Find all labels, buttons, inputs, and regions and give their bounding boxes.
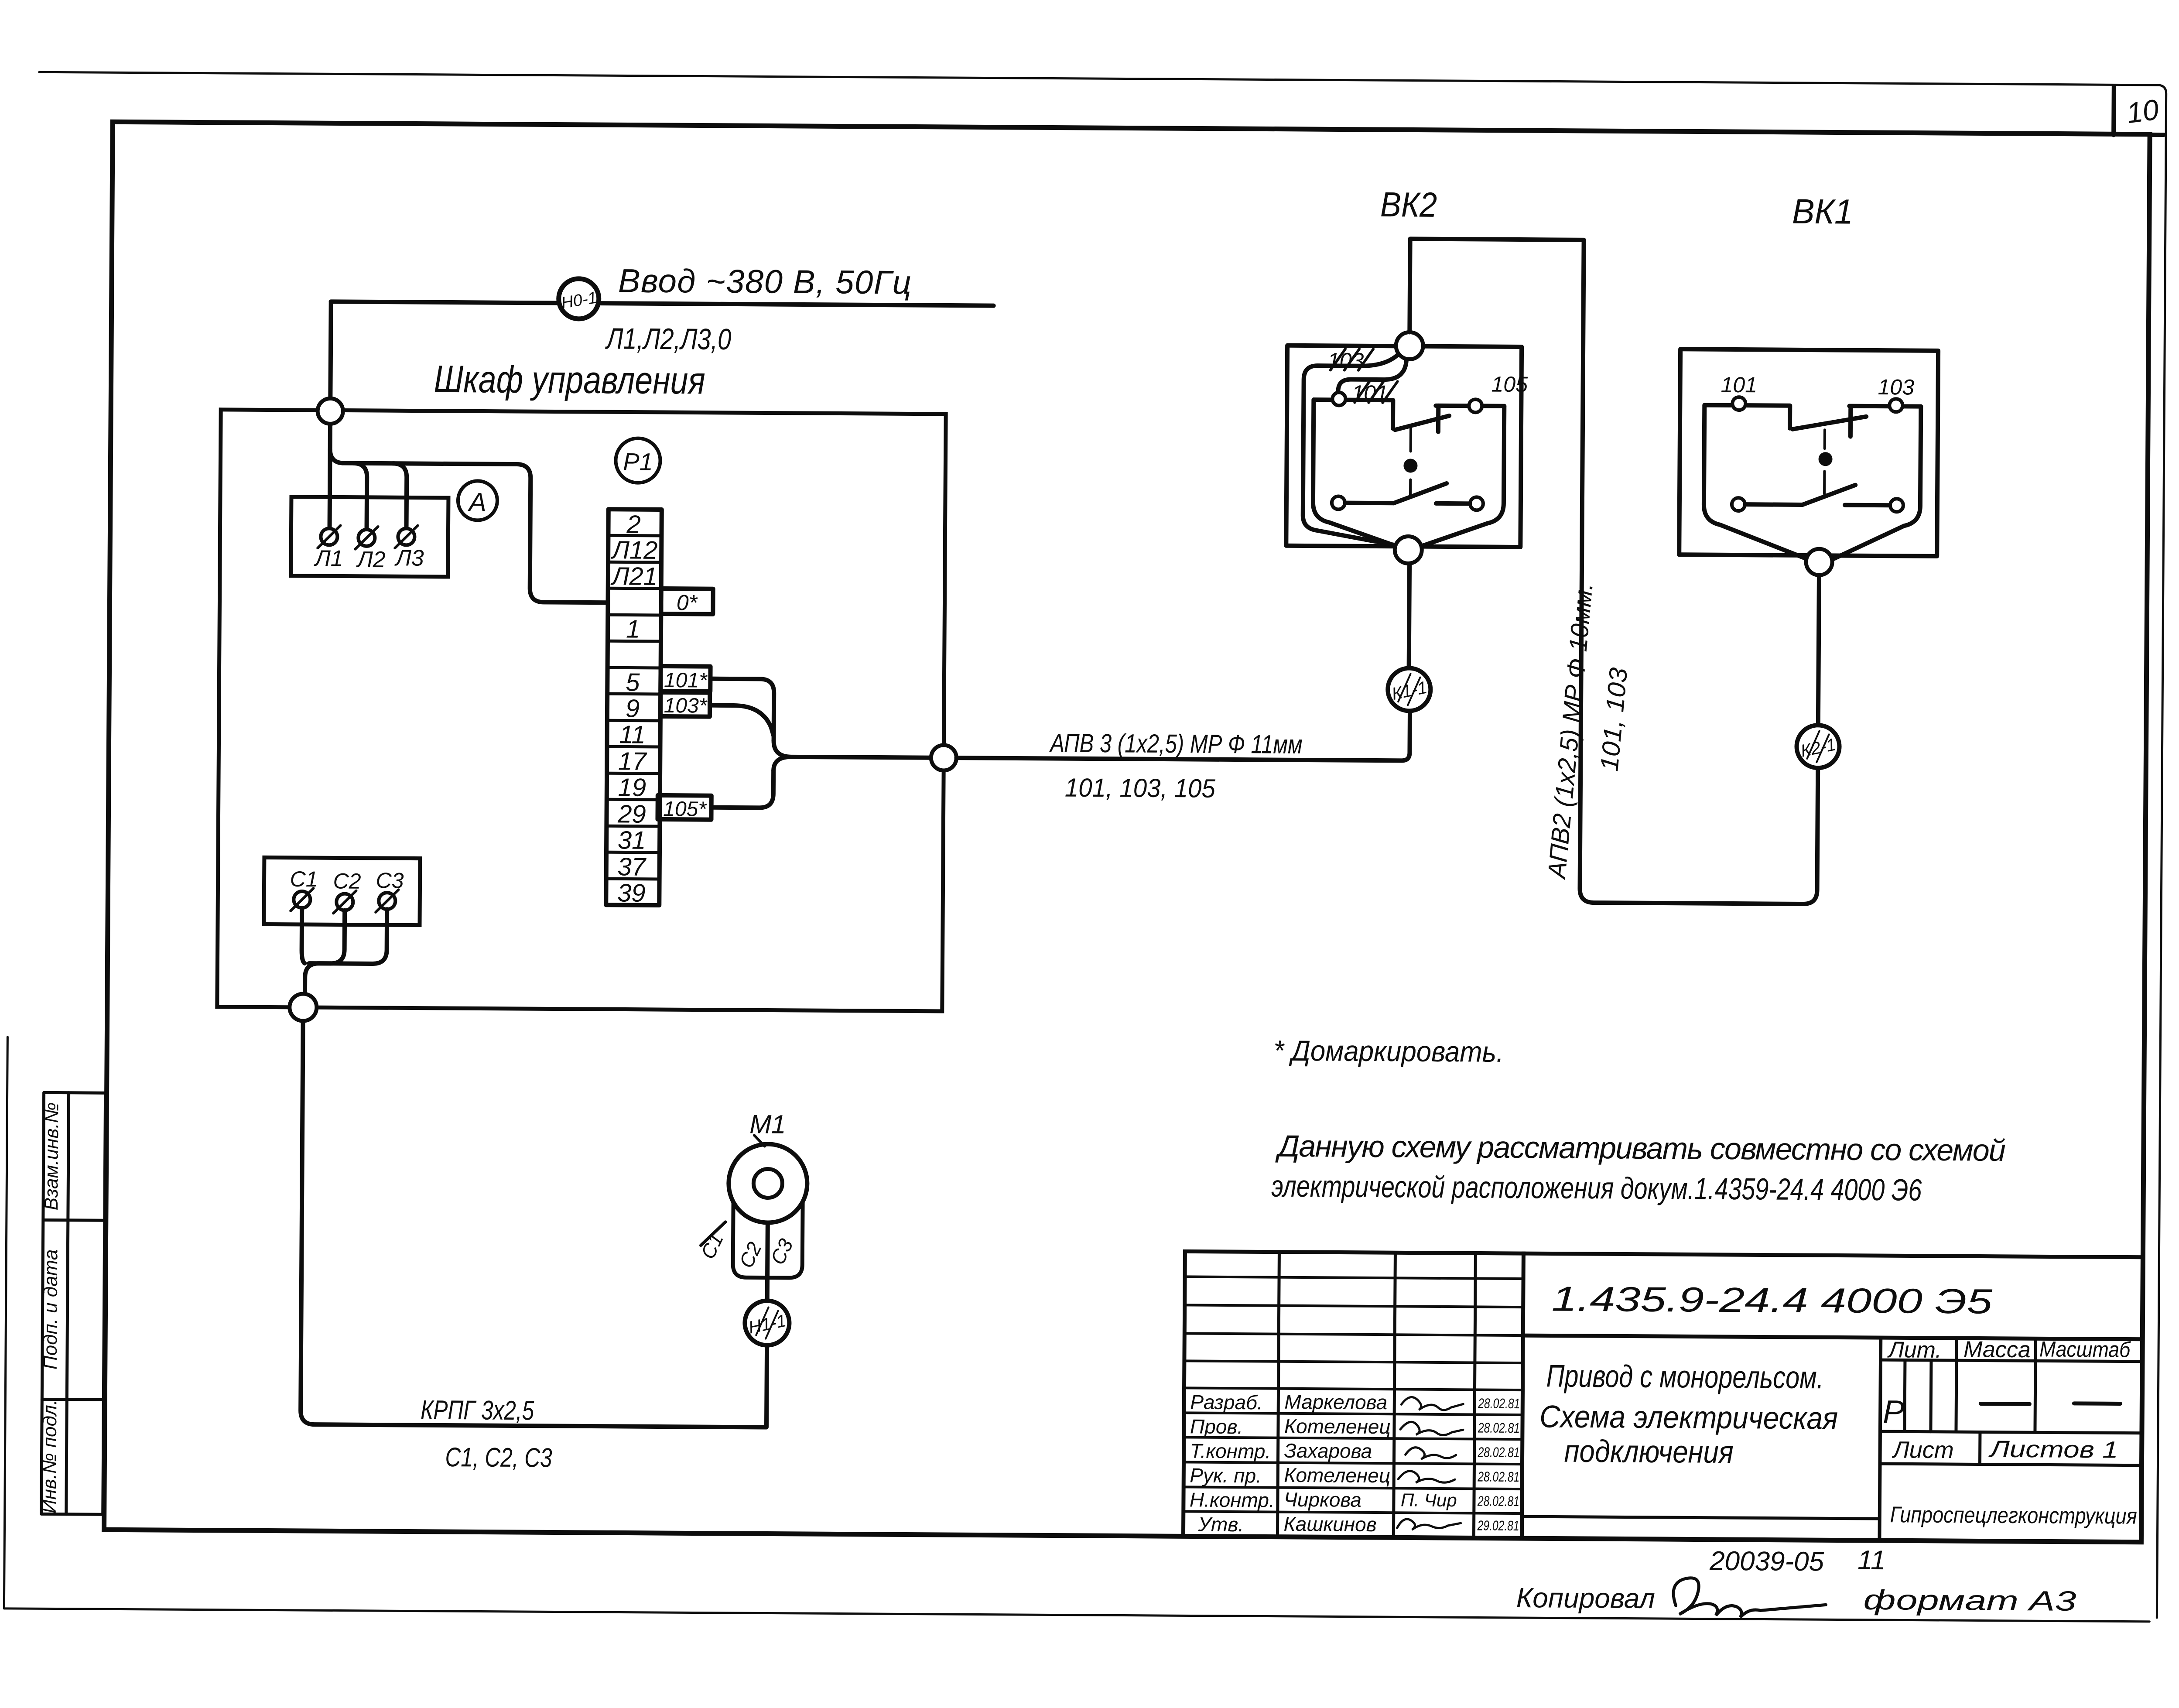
svg-text:Котеленец: Котеленец	[1284, 1464, 1390, 1487]
wire tag box 103*	[660, 692, 710, 718]
wire: cabinet bottom junction down and across to motor	[301, 1021, 769, 1427]
circled label Р1	[616, 438, 660, 483]
motor body	[733, 1202, 803, 1278]
ВК1 actuator link lower	[1823, 471, 1826, 494]
svg-text:Н.контр.: Н.контр.	[1190, 1488, 1275, 1511]
svg-text:Шкаф управления: Шкаф управления	[434, 357, 705, 402]
strip row lines	[606, 535, 662, 879]
svg-text:ВК2: ВК2	[1380, 185, 1437, 224]
ВК2 actuator link lower	[1409, 479, 1412, 497]
svg-text:2: 2	[626, 510, 641, 539]
signature 3	[1406, 1448, 1456, 1460]
svg-text:Л21: Л21	[610, 562, 658, 591]
svg-text:Захарова: Захарова	[1284, 1439, 1372, 1462]
svg-text:А: А	[468, 487, 486, 517]
svg-text:П. Чир: П. Чир	[1401, 1489, 1457, 1510]
left strip cell divider 2	[42, 1398, 103, 1401]
cable marker Н1-1	[745, 1301, 790, 1345]
motor M1 stator circle	[729, 1144, 807, 1223]
left strip cell divider 1	[43, 1219, 105, 1222]
ВК1 lower contact blade	[1803, 485, 1855, 505]
title block upper row lines (left part)	[1184, 1277, 1523, 1363]
svg-text:формат А3: формат А3	[1863, 1584, 2076, 1617]
svg-text:11: 11	[1857, 1545, 1886, 1575]
лист row top line	[1880, 1431, 2142, 1433]
svg-text:20039-05: 20039-05	[1709, 1546, 1824, 1577]
svg-text:Масса: Масса	[1963, 1337, 2031, 1362]
terminal Л1	[318, 525, 340, 548]
wire: from 101* to merge	[710, 679, 774, 741]
wire: С1 down to gather	[301, 908, 305, 963]
wire tag box 101*	[660, 666, 710, 692]
лит sub-cell dividers	[1905, 1360, 1931, 1431]
ВК2 wire 101 from junction	[1338, 360, 1406, 393]
svg-text:Взам.инв.№: Взам.инв.№	[41, 1102, 63, 1210]
svg-text:1: 1	[626, 615, 640, 643]
wire: junction to terminal Л1	[330, 424, 330, 528]
title block vertical: name column	[1393, 1253, 1395, 1537]
ВК2 bottom cable junction	[1395, 536, 1422, 563]
svg-text:Привод с монорельсом.: Привод с монорельсом.	[1546, 1359, 1823, 1395]
ВК2 upper contact blade	[1395, 415, 1449, 430]
ВК1 actuator link upper	[1823, 430, 1826, 448]
svg-text:С3: С3	[376, 868, 404, 893]
wire: motor lead through body	[767, 1223, 768, 1301]
svg-text:10: 10	[2124, 93, 2161, 129]
svg-text:Подп. и дата: Подп. и дата	[40, 1249, 62, 1370]
title block outer box	[1183, 1251, 2143, 1542]
svg-text:Данную схему рассматривать сов: Данную схему рассматривать совместно со …	[1275, 1129, 2006, 1167]
ВК1 terminal 103	[1889, 399, 1902, 412]
svg-text:Лит.: Лит.	[1887, 1337, 1942, 1363]
wire: С2 down to gather	[330, 910, 345, 963]
svg-text:Л3: Л3	[394, 545, 424, 571]
terminal box A	[291, 497, 448, 577]
svg-text:АПВ 3 (1х2,5) МР Ф 11мм: АПВ 3 (1х2,5) МР Ф 11мм	[1049, 728, 1303, 759]
ВК2 wire 103 label (hatched)	[1327, 348, 1373, 373]
ВК1 terminal 101	[1732, 397, 1745, 410]
svg-text:9: 9	[626, 695, 640, 723]
ВК1 lower terminal right	[1890, 499, 1903, 512]
ВК2 lower contact left	[1345, 501, 1394, 506]
ВК1 upper contact fixed line right	[1849, 406, 1921, 407]
ВК2 lower contact right	[1436, 501, 1470, 506]
лист row divider	[1978, 1432, 1981, 1464]
svg-text:103: 103	[1878, 375, 1914, 400]
wire tag box 105*	[657, 795, 711, 821]
wire: from 103* to merge	[710, 705, 774, 736]
ВК1 lower contact right	[1845, 503, 1890, 508]
ВК1 upper contact anvil tick	[1848, 409, 1853, 437]
doc number cell bottom line	[1523, 1335, 2142, 1339]
wire: link line across to down cable	[1406, 239, 1821, 904]
wire: С2 gather segment	[309, 961, 330, 965]
лит section vertical	[1879, 1338, 1881, 1540]
svg-text:Р: Р	[1883, 1393, 1905, 1430]
top strip bottom segment right of frame	[2150, 133, 2164, 137]
ВК1 lower terminal left	[1732, 498, 1745, 511]
svg-text:Л12: Л12	[610, 536, 658, 565]
svg-text:Т.контр.: Т.контр.	[1190, 1439, 1271, 1462]
svg-text:Разраб.: Разраб.	[1190, 1390, 1263, 1414]
junction on cabinet bottom edge	[290, 994, 317, 1021]
svg-text:28.02.81: 28.02.81	[1477, 1468, 1519, 1485]
svg-text:Рук. пр.: Рук. пр.	[1190, 1464, 1262, 1487]
left margin attribute strip box	[41, 1092, 106, 1514]
svg-text:29: 29	[617, 800, 646, 828]
ВК2 lower terminal left	[1332, 496, 1345, 509]
wire: К1-1 up to ВК2 junction	[1409, 563, 1409, 668]
svg-text:Листов 1: Листов 1	[1988, 1436, 2118, 1463]
svg-text:Котеленец: Котеленец	[1284, 1415, 1391, 1438]
svg-text:28.02.81: 28.02.81	[1477, 1493, 1519, 1509]
title block vertical: signature column	[1474, 1253, 1475, 1538]
ВК1 contact shield right side	[1832, 406, 1921, 560]
svg-text:101*: 101*	[664, 669, 708, 692]
wire: from 105* to merge	[712, 770, 774, 808]
terminal box С1 С2 С3	[264, 857, 420, 925]
drawing frame	[104, 122, 2150, 1542]
ВК2 wire 103 loop	[1303, 353, 1399, 545]
wire: drop from supply line into cabinet	[330, 301, 331, 398]
ВК2 lower contact blade	[1394, 483, 1447, 503]
svg-text:Копировал: Копировал	[1516, 1582, 1655, 1614]
svg-text:11: 11	[619, 720, 646, 749]
svg-text:Р1: Р1	[623, 448, 653, 475]
motor rotor circle	[753, 1169, 782, 1198]
wire: branch bundle to Л2, Л3 and P1	[329, 449, 609, 602]
ВК2 wire 101 label (hatched)	[1351, 381, 1397, 406]
copyist signature	[1673, 1578, 1826, 1618]
ВК1 contact shield left side	[1704, 405, 1809, 559]
svg-text:Л1: Л1	[314, 546, 343, 571]
svg-text:Инв.№ подл.: Инв.№ подл.	[39, 1400, 61, 1513]
title block vertical: main divider	[1522, 1253, 1523, 1538]
svg-text:Чиркова: Чиркова	[1284, 1488, 1361, 1511]
leader from М1 to motor	[754, 1135, 765, 1146]
ВК2 upper contact anvil tick	[1436, 406, 1440, 432]
svg-text:Л1,Л2,Л3,0: Л1,Л2,Л3,0	[605, 322, 732, 356]
svg-text:подключения: подключения	[1564, 1434, 1733, 1470]
ВК2 upper contact fixed line right	[1436, 404, 1504, 408]
wire: ВК1 junction down to К2-1	[1818, 575, 1819, 725]
circled label А	[458, 481, 498, 520]
svg-text:Маркелова: Маркелова	[1284, 1390, 1387, 1414]
svg-text:29.02.81: 29.02.81	[1477, 1517, 1519, 1533]
svg-text:105*: 105*	[663, 798, 707, 821]
junction on cabinet top edge	[318, 398, 343, 424]
ВК2 contact shield right side	[1420, 406, 1504, 547]
svg-text:Ввод ~380 В, 50Гц: Ввод ~380 В, 50Гц	[618, 262, 912, 301]
svg-text:28.02.81: 28.02.81	[1478, 1444, 1520, 1460]
ВК1 bottom cable junction	[1806, 549, 1832, 575]
ВК1 upper contact blade	[1792, 416, 1866, 430]
svg-text:* Домаркировать.: * Домаркировать.	[1273, 1034, 1504, 1068]
wire: С3 down to gather	[305, 909, 387, 995]
left strip label column divider	[66, 1093, 69, 1514]
wire: merged cable to cabinet edge junction	[773, 741, 931, 772]
svg-text:Масштаб: Масштаб	[2039, 1337, 2131, 1362]
лит header underline	[1881, 1360, 2142, 1362]
sheet outer border bottom edge	[4, 1609, 2149, 1622]
ВК2 terminal 101	[1332, 392, 1345, 405]
ВК2 actuator link upper	[1409, 428, 1412, 451]
svg-text:Пров.: Пров.	[1190, 1415, 1243, 1438]
title block staff row lines	[1184, 1388, 1523, 1513]
cable marker К1-1	[1388, 668, 1431, 711]
signature 2	[1400, 1422, 1463, 1435]
svg-text:101, 103, 105: 101, 103, 105	[1065, 773, 1216, 803]
ВК2 lower terminal right	[1470, 497, 1483, 510]
ВК2 top cable junction	[1396, 332, 1423, 359]
ВК2 contact shield left side	[1313, 400, 1398, 546]
junction on cabinet right edge	[931, 745, 956, 770]
terminal С2	[333, 890, 356, 913]
svg-text:Утв.: Утв.	[1197, 1513, 1244, 1536]
svg-text:105: 105	[1491, 372, 1528, 397]
ВК2 upper contact fixed line left	[1314, 400, 1393, 428]
svg-text:0*: 0*	[677, 590, 698, 615]
ВК1 actuator pivot dot	[1818, 452, 1832, 466]
signature 1	[1401, 1397, 1463, 1410]
svg-text:28.02.81: 28.02.81	[1478, 1420, 1520, 1436]
svg-text:37: 37	[617, 852, 647, 881]
terminal Л3	[395, 525, 417, 548]
ВК1 upper contact fixed line left	[1704, 405, 1790, 428]
svg-text:39: 39	[617, 879, 646, 907]
terminal С1	[291, 888, 313, 911]
ВК1 lower contact left	[1745, 502, 1803, 507]
wire: branch down to Л2	[353, 463, 367, 530]
terminal strip Р1 body	[606, 509, 662, 905]
svg-text:электрической расположения док: электрической расположения докум.1.4359-…	[1271, 1169, 1922, 1207]
svg-text:КРПГ 3х2,5: КРПГ 3х2,5	[421, 1395, 534, 1426]
signature 6	[1397, 1519, 1461, 1530]
title cell bottom line	[1522, 1516, 1880, 1519]
svg-text:Л2: Л2	[356, 547, 386, 572]
svg-text:103*: 103*	[664, 694, 708, 718]
sheet outer border left edge (lower part)	[4, 1037, 7, 1609]
cable marker К2-1	[1796, 725, 1840, 768]
cable marker Н0-1	[558, 279, 599, 319]
svg-text:5: 5	[626, 668, 640, 697]
svg-text:28.02.81: 28.02.81	[1478, 1395, 1520, 1411]
limit switch ВК2 enclosure	[1286, 346, 1522, 547]
svg-text:17: 17	[618, 747, 648, 775]
terminal С3	[376, 890, 398, 912]
лист row bottom line	[1880, 1464, 2141, 1465]
svg-text:С1, С2, С3: С1, С2, С3	[445, 1442, 552, 1473]
лит/масса header dividers	[1956, 1338, 2035, 1432]
ВК2 actuator pivot dot	[1403, 459, 1417, 472]
strip pin numbers	[608, 510, 658, 907]
control cabinet box	[217, 410, 946, 1011]
limit switch ВК1 enclosure	[1679, 349, 1938, 556]
масштаб dash	[2074, 1401, 2120, 1406]
svg-text:Схема электрическая: Схема электрическая	[1539, 1399, 1838, 1436]
terminal Л2	[355, 527, 378, 549]
svg-text:Лист: Лист	[1892, 1437, 1954, 1463]
top strip sheet-number box divider	[2111, 86, 2116, 135]
ВК2 terminal 105	[1469, 399, 1482, 412]
wire tag box 0*	[661, 589, 713, 615]
title block vertical: role column	[1277, 1252, 1279, 1537]
svg-text:31: 31	[618, 826, 646, 854]
svg-text:Гипроспецлегконструкция: Гипроспецлегконструкция	[1890, 1502, 2137, 1529]
svg-text:Кашкинов: Кашкинов	[1283, 1513, 1376, 1536]
svg-text:1.435.9-24.4 4000 Э5: 1.435.9-24.4 4000 Э5	[1552, 1279, 1993, 1321]
svg-text:19: 19	[618, 773, 646, 801]
signature 4	[1398, 1471, 1455, 1483]
wire: incoming supply line ~380V	[331, 301, 994, 305]
wire: ВК2 junction up to link line	[1409, 239, 1410, 332]
cable slash at motor	[701, 1222, 725, 1246]
масса dash	[1981, 1402, 2029, 1406]
svg-text:ВК1: ВК1	[1792, 192, 1854, 231]
wire: branch down to Л3	[393, 463, 407, 528]
svg-text:101: 101	[1721, 373, 1757, 397]
wire: cable from cabinet to ВК2	[956, 709, 1410, 760]
